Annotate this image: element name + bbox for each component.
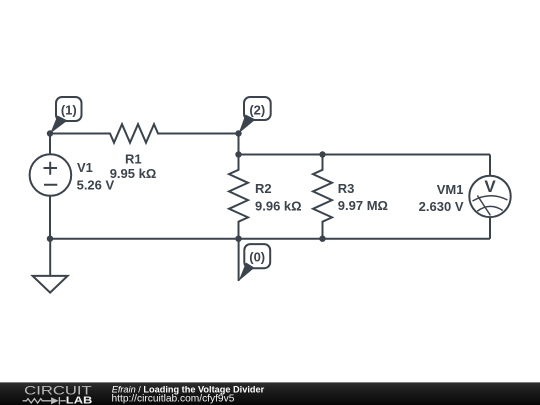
svg-text:V: V	[484, 177, 496, 196]
svg-text:(1): (1)	[61, 103, 77, 118]
svg-text:VM1: VM1	[437, 182, 464, 197]
svg-text:R1: R1	[125, 151, 142, 166]
svg-text:(2): (2)	[249, 103, 265, 118]
svg-text:9.95 kΩ: 9.95 kΩ	[110, 166, 157, 181]
svg-text:V1: V1	[77, 160, 93, 175]
svg-text:http://circuitlab.com/cfyf9v5: http://circuitlab.com/cfyf9v5	[112, 394, 235, 405]
svg-text:9.97 MΩ: 9.97 MΩ	[338, 198, 388, 213]
svg-text:9.96 kΩ: 9.96 kΩ	[255, 198, 302, 213]
svg-text:LAB: LAB	[66, 394, 93, 405]
svg-text:R2: R2	[255, 181, 272, 196]
svg-text:(0): (0)	[249, 250, 265, 265]
svg-text:2.630 V: 2.630 V	[419, 199, 464, 214]
svg-text:R3: R3	[338, 181, 355, 196]
